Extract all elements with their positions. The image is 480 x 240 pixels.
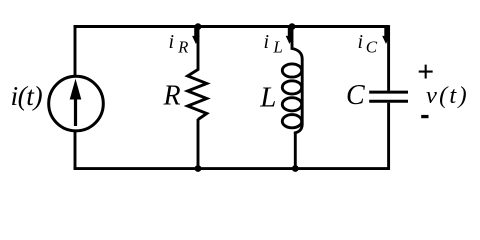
wire inductor bottom stub: [294, 132, 297, 169]
current arrow i_C: [382, 28, 390, 45]
wire inductor top stub: [291, 27, 294, 46]
current source I1: [49, 76, 104, 131]
wire bottom: [74, 167, 389, 170]
svg-text:C: C: [366, 38, 378, 57]
svg-text:i(t): i(t): [11, 80, 43, 111]
svg-text:i: i: [169, 31, 175, 53]
label minus polarity: [421, 115, 428, 118]
resistor R: [188, 70, 207, 120]
svg-text:R: R: [177, 38, 188, 57]
wire left upper: [74, 25, 77, 76]
wire resistor top stub: [197, 27, 200, 71]
wire top: [74, 25, 389, 28]
svg-text:L: L: [259, 82, 276, 114]
svg-text:R: R: [163, 80, 181, 111]
wire capacitor bottom stub: [387, 103, 390, 170]
label i_L: [264, 31, 283, 57]
svg-text:C: C: [346, 80, 365, 111]
current arrow i_R: [192, 28, 200, 45]
capacitor C: [369, 92, 408, 101]
junction dot inductor bottom: [292, 165, 299, 172]
wire left lower: [74, 131, 77, 171]
label i_C: [358, 31, 378, 57]
svg-text:i: i: [358, 31, 364, 53]
current arrow i_L: [286, 28, 294, 45]
wire capacitor top stub: [387, 25, 390, 91]
inductor L: [282, 44, 302, 134]
svg-text:i: i: [264, 31, 270, 53]
wire resistor bottom stub: [197, 119, 200, 169]
label i_R: [169, 31, 189, 57]
junction dot resistor top: [195, 23, 202, 30]
junction dot inductor top: [289, 23, 296, 30]
svg-text:L: L: [272, 38, 282, 57]
junction dot resistor bottom: [195, 165, 202, 172]
svg-text:v(t): v(t): [426, 82, 469, 109]
